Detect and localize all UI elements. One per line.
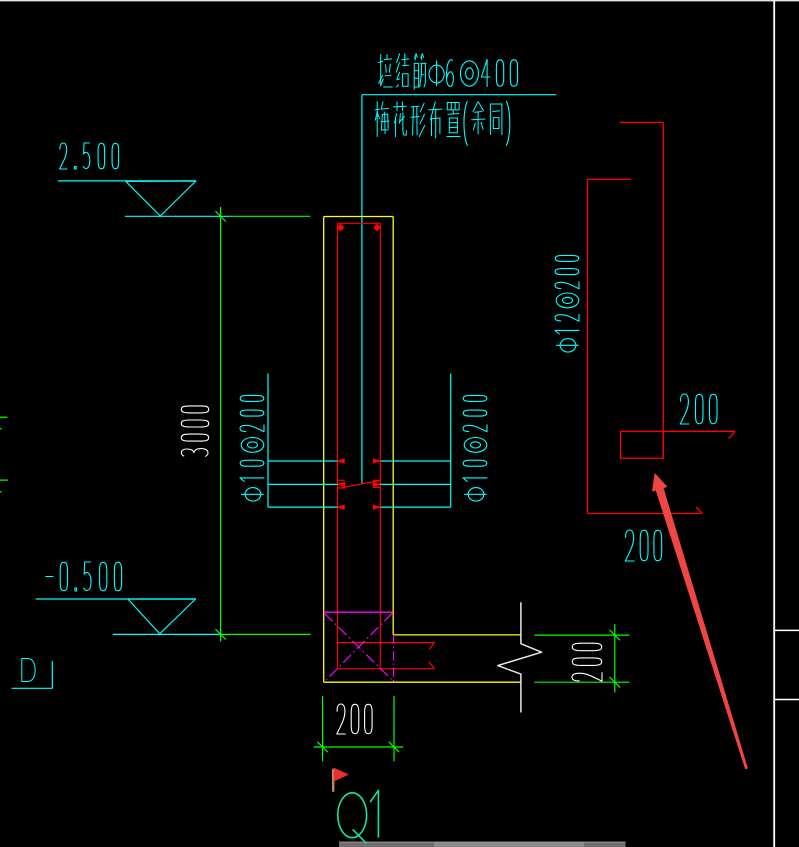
leader text line2: 梅花形布置(余同) (376, 102, 378, 137)
dim slab 200 bottom extension (534, 681, 629, 683)
dimension 3000 bottom tick (215, 629, 225, 639)
detail small rectangle (621, 431, 664, 458)
label Q1 letter Q (338, 793, 367, 838)
elevation 2.500 upper line (58, 180, 196, 182)
bottom scrollbar thumb (434, 842, 584, 847)
dim bottom 200 right extension (393, 696, 395, 761)
leader phi10 left line1 (268, 460, 338, 462)
dimension 3000 top tick (215, 211, 225, 221)
arrowhead left line3 (338, 505, 345, 509)
leader phi10 right vertical (450, 374, 452, 508)
wall outline top edge (324, 216, 394, 218)
arrowhead left line2 (338, 482, 345, 486)
phi12 inner bar top horizontal (587, 178, 631, 180)
elevation -0.500 level line (113, 633, 221, 635)
dim slab 200 top extension (534, 634, 629, 636)
slab top edge (393, 634, 521, 636)
dim bottom text 200 (337, 704, 346, 734)
flag pole (332, 769, 334, 792)
label 200 lower right (625, 530, 634, 561)
leader phi10 left line3 (268, 506, 338, 508)
phi12 inner bar bottom horizontal (588, 513, 703, 515)
arrowhead right line3 (374, 505, 381, 509)
section mark underline corner (12, 661, 53, 688)
phi12 inner bar vertical (587, 179, 589, 513)
lap splice crank diagonal (341, 481, 380, 488)
rebar dot right (374, 224, 380, 231)
footing bottom edge (324, 681, 521, 683)
leader phi10 right line1 (380, 460, 450, 462)
leader phi10 right line3 (380, 506, 450, 508)
phi12 inner bar end tick (696, 507, 702, 513)
rebar right vertical (379, 223, 381, 668)
label phi10@200 right (rotated) (463, 395, 487, 501)
dim slab text 200 (rotated) (572, 643, 602, 681)
rebar left vertical (337, 223, 339, 668)
leader text line1: 拉结筋Φ6@400 (380, 55, 382, 86)
lap splice right hook (373, 479, 381, 481)
leader vertical line to wall (361, 95, 363, 484)
dim slab 200 vertical (614, 624, 616, 692)
footing bar lower (338, 668, 435, 670)
cropped tick left edge upper (0, 428, 2, 430)
lap splice left hook (338, 479, 346, 481)
phi12 outer bar top horizontal (620, 121, 663, 123)
annotation arrow head (653, 474, 667, 491)
elevation text 2.500 (60, 143, 68, 169)
dimension 3000 bottom extension line (221, 633, 311, 635)
leader phi10 left vertical (267, 374, 269, 508)
cropped dimension line left edge lower (0, 479, 8, 481)
dim slab 200 ticks (610, 630, 620, 640)
bottom scrollbar track (339, 842, 626, 847)
cropped tick left edge lower (0, 491, 2, 493)
leader phi10 left line2 (268, 483, 341, 485)
leader phi10 right line2 (377, 483, 451, 485)
footing bar upper (338, 642, 435, 644)
detail rectangle top extension line (663, 430, 735, 432)
elevation 2.500 triangle (126, 181, 196, 216)
arrowhead right line1 (374, 459, 381, 463)
dim bottom 200 ticks (317, 742, 327, 752)
footing diagonal 1 (dash-dot) (325, 614, 394, 682)
rebar dot left (337, 224, 343, 231)
right panel divider vertical line (773, 0, 775, 847)
elevation 2.500 level line (125, 215, 230, 217)
detail extension end tick (729, 432, 736, 439)
arrowhead right line2 (373, 482, 380, 486)
dimension 3000 vertical line (220, 207, 222, 642)
flag triangle (334, 768, 348, 781)
elevation -0.500 upper line (36, 598, 196, 600)
bottom scrollbar top highlight (339, 841, 626, 843)
wall outline right edge (392, 217, 394, 635)
label phi12@200 (rotated) (555, 255, 579, 352)
leader underline (362, 94, 556, 96)
rebar stirrup top (338, 222, 381, 224)
elevation -0.500 triangle (128, 599, 196, 634)
label Q1 digit 1 (370, 790, 378, 837)
section mark letter D (22, 659, 35, 682)
annotation arrow shaft (656, 488, 747, 769)
label 200 upper right (680, 394, 689, 424)
dimension 3000 top extension line (230, 215, 311, 217)
right panel tick upper (775, 629, 799, 631)
dimension text 3000 (rotated) (181, 406, 208, 456)
elevation text -0.500 (46, 576, 54, 578)
footing diagonal 2 (dash-dot) (326, 613, 392, 680)
phi12 outer bar vertical (662, 122, 664, 458)
arrowhead left line1 (338, 459, 345, 463)
dim bottom 200 left extension (322, 696, 324, 761)
label phi10@200 left (rotated) (240, 395, 264, 501)
right panel tick lower (775, 699, 799, 701)
footing centerline (dash-dot vertical) (393, 635, 395, 682)
wall outline left edge (323, 217, 325, 683)
dim bottom 200 line (314, 746, 403, 748)
footing top magenta line (324, 611, 393, 613)
top window edge line (0, 0, 799, 2)
slab break line (498, 602, 542, 712)
cropped dimension line left edge upper (0, 416, 7, 418)
